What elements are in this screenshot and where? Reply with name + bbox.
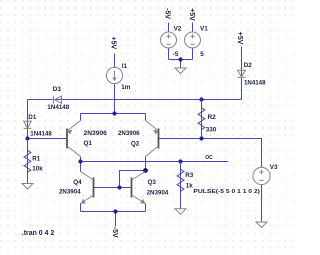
wire Q4 collector [80,162,82,172]
svg-text:2N3906: 2N3906 [84,130,108,137]
svg-text:OC: OC [205,155,213,161]
node output junction Q1 Q4 [78,159,82,163]
svg-text:5: 5 [200,51,204,58]
svg-text:1N4148: 1N4148 [47,104,69,111]
svg-text:+5V: +5V [236,32,243,45]
wire V3 bottom [261,185,263,222]
svg-text:Q4: Q4 [73,179,82,186]
wire V2 top [168,23,170,33]
ground below R1 [22,184,33,190]
node V2 V1 ground junction [178,57,182,61]
svg-text:R3: R3 [185,172,194,179]
svg-text:V1: V1 [200,26,208,33]
wire bottom flag drop [115,212,117,227]
svg-text:-5: -5 [173,51,179,58]
svg-text:+5V: +5V [109,37,116,50]
current source I1 [106,67,122,83]
wire mirror base Q4-Q3 [94,187,132,189]
node mirror collector junction [143,168,148,173]
diode D2 [238,70,246,77]
node R2 bottom junction [199,136,203,140]
svg-text:1k: 1k [186,183,194,190]
resistor R3 [177,162,184,192]
svg-text:1N4148: 1N4148 [30,130,52,137]
wire ground drop V2V1 [180,60,182,69]
svg-text:1m: 1m [121,84,131,91]
transistor Q1 2N3906 pnp [67,121,81,157]
wire I1 bottom drop [114,84,116,114]
wire R1 branch [27,139,29,184]
svg-text:.tran 0 4 2: .tran 0 4 2 [22,230,55,237]
wire Q3 collector stub [145,171,147,172]
wire Q1 emitter [80,114,82,121]
transistor Q3 2N3904 npn [132,172,146,204]
svg-text:R1: R1 [32,156,41,163]
svg-text:Q1: Q1 [84,140,93,147]
node D1 R1 Q1-base junction [25,136,29,140]
wire R3 branch [180,162,182,209]
wire Q2 emitter [145,114,147,121]
svg-text:-5V: -5V [164,8,171,19]
wire top rail [28,99,242,101]
wire V2 bottom [168,48,170,60]
node I1 emitter-rail junction [112,111,116,115]
wire Q3 emitter [145,204,147,212]
svg-text:-5V: -5V [111,227,118,238]
wire Q2 collector [145,157,147,171]
svg-text:10k: 10k [32,166,43,173]
ground below V3 [256,222,267,228]
svg-text:R2: R2 [208,114,217,121]
wire mirror tie riser [120,171,146,188]
wire Q4 emitter [80,204,82,212]
wire bottom emitter rail [81,211,146,213]
wire V1 bottom [192,48,194,60]
node R3 top junction [178,159,182,163]
svg-text:V2: V2 [174,26,182,33]
node bottom rail junction [113,209,117,213]
diode D1 [24,121,32,128]
wire V2 V1 ground tie [169,59,193,61]
wire R2 branch [201,100,203,139]
svg-text:D1: D1 [28,114,37,121]
ground below R3 [175,209,186,215]
wire base row Q2 to V3 [159,139,262,168]
voltage source V2 [161,32,177,48]
wire emitter rail [81,113,146,115]
svg-text:I1: I1 [122,63,128,70]
svg-text:2N3904: 2N3904 [59,189,81,196]
svg-text:V3: V3 [270,164,278,171]
wire output line OC [81,161,229,163]
svg-text:2N3904: 2N3904 [147,189,169,196]
wire I1 top [114,54,116,68]
svg-text:Q3: Q3 [148,179,157,186]
node R2 top junction [199,97,203,101]
wire V1 top [192,23,194,33]
svg-text:Q2: Q2 [131,141,140,148]
svg-text:D2: D2 [244,62,253,69]
resistor R2 [198,100,205,131]
svg-text:2N3906: 2N3906 [118,130,140,137]
wire Q1 collector [80,157,82,162]
transistor Q2 2N3906 pnp [146,121,159,157]
wire left drop to D1 [27,100,29,139]
transistor Q4 2N3904 npn [81,172,94,204]
diode D3 [54,96,62,103]
ground below V2 V1 [175,68,186,74]
svg-text:+5V: +5V [188,8,195,21]
wire D2 branch [241,47,243,100]
wire base row Q1 [28,138,68,140]
voltage source V3 [253,167,270,184]
svg-text:D3: D3 [53,86,62,93]
resistor R1 [24,139,31,173]
svg-text:PULSE(-5 5 0 1 1 0 2): PULSE(-5 5 0 1 1 0 2) [193,189,260,195]
voltage source V1 [185,32,201,48]
node mirror base tie junction [117,185,121,189]
svg-text:1N4148: 1N4148 [244,80,266,87]
svg-text:330: 330 [206,127,217,134]
